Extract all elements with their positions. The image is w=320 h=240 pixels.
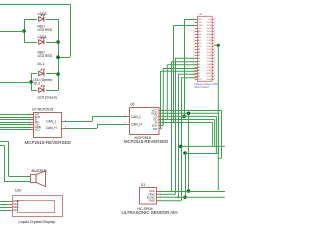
pin number U1 right 6 [214, 33, 215, 35]
wire U7 pin GND [0, 127, 31, 129]
wire vertical x188.5 [188, 113, 190, 191]
wire U7 pin SO [0, 122, 31, 124]
pin number U7 SCK [29, 116, 30, 118]
LCD U10 outer body [13, 196, 63, 217]
sensor S1 body [140, 188, 157, 205]
wire red LED left join [24, 19, 26, 42]
wire U1 mid pin f [178, 73, 197, 75]
label U1 pin D38 [207, 70, 212, 72]
wire buzzer + b [9, 176, 31, 178]
label U1 pin A0 [198, 75, 201, 78]
label U1 pin A7 [198, 54, 201, 57]
pin number U1 left 7 [193, 36, 194, 38]
pin U1 right 9 stub [212, 43, 214, 45]
label LED2 [38, 12, 47, 16]
label U6 value MCP2515 [135, 136, 151, 140]
wire U7 pin VCC [0, 129, 31, 131]
pin U1 left 1 stub [195, 19, 197, 21]
label U7 pin SCK [35, 115, 41, 119]
pin number U1 right 21 [214, 78, 215, 80]
svg-text:INT: INT [153, 127, 158, 131]
label BUZZER [32, 169, 47, 173]
pin number U1 left 3 [193, 24, 194, 26]
pin number U1 right 8 [214, 39, 215, 41]
pin U6 CS stub [159, 115, 162, 117]
pin number U1 left 6 [193, 33, 194, 35]
LED LED2 [39, 14, 45, 21]
pin U1 left 21 stub [195, 79, 197, 81]
label U1 pin D25 [207, 31, 212, 33]
svg-text:VIN: VIN [198, 28, 202, 30]
wire CAN_H b [97, 124, 126, 126]
pin number S1 VCC [160, 190, 161, 192]
pin U1 left 17 stub [195, 67, 197, 69]
label U7 CAN_L [46, 120, 57, 124]
pin U1 left 6 stub [195, 34, 197, 36]
wire drop b [171, 62, 173, 191]
label LCD pin GND [13, 199, 19, 203]
label LED1 value RED [38, 51, 46, 55]
label U1 link line1 [194, 82, 219, 86]
label U6 CAN_H [131, 122, 143, 126]
pin U1 right 16 stub [212, 64, 214, 66]
wire U1 mid pin d [163, 68, 197, 70]
wire U6 SCK out [162, 125, 164, 127]
svg-text:CAN_L: CAN_L [131, 115, 142, 119]
svg-text:GND: GND [198, 25, 203, 27]
pin S1 GND stub [156, 200, 159, 202]
wire right pin drop [217, 45, 219, 190]
wire drop g [181, 78, 183, 201]
pin number U6 SCK [162, 124, 163, 126]
wire CAN_L b [92, 116, 126, 118]
wire VCC jog [218, 157, 221, 159]
pin number U6 INT [162, 127, 163, 129]
pin U1 left 15 stub [195, 61, 197, 63]
label U7 pin VCC [35, 128, 41, 132]
label S1 pin ECHO [147, 195, 156, 199]
pin number U1 right 1 [214, 18, 215, 20]
node LED bus / rail [56, 55, 60, 59]
LED LED1 [39, 37, 45, 44]
pin number U7 SO [29, 121, 30, 123]
node U1 right pin [217, 44, 220, 47]
svg-text:8: 8 [124, 115, 125, 117]
pin U1 left 7 stub [195, 37, 197, 39]
wire LCD GND [0, 201, 9, 203]
pin number U1 left 13 [193, 54, 194, 56]
node LED bus / LED1 [56, 40, 60, 44]
pin U1 left 12 stub [195, 52, 197, 54]
wire U7 pin INT [0, 114, 31, 116]
node x188.5 sensor VCC [187, 189, 191, 193]
svg-text:8: 8 [124, 122, 125, 124]
pin number S1 GND [160, 199, 161, 201]
label U1 pin D36 [207, 64, 212, 66]
wire GND stair drop [218, 113, 220, 153]
wire CS stair drop [215, 116, 217, 153]
wire S1 GND [159, 200, 181, 202]
wire VCC drop [221, 110, 223, 158]
pin number U7 CAN_L [65, 120, 66, 122]
pin number U1 left 1 [193, 18, 194, 20]
pin number U1 left 18 [193, 69, 194, 71]
label S1 pin GND [149, 199, 155, 203]
pin U1 left 13 stub [195, 55, 197, 57]
label U7 CAN_H [46, 126, 58, 130]
pin number U1 left 12 [193, 51, 194, 53]
svg-text:U6: U6 [130, 103, 135, 107]
wire U7 pin SI [0, 119, 31, 121]
label U1 pin CLK [207, 76, 212, 78]
op-amp U7 MCP2515 body [34, 113, 62, 138]
wire U6 SI out [162, 122, 213, 124]
label U1 pin A11 [198, 42, 203, 45]
label DL1 value [33, 78, 52, 82]
wire buzzer - drop [4, 146, 6, 182]
pin U1 right 1 stub [212, 19, 214, 21]
pin U1 left 5 stub [195, 31, 197, 33]
label DL2 [34, 82, 41, 86]
pin U7 CAN_L stub [62, 121, 65, 123]
pin number S1 ECHO [160, 196, 161, 198]
pin U6 SI stub [159, 122, 162, 124]
wire U6 GND out [162, 112, 219, 114]
svg-text:DL1: DL1 [38, 62, 45, 66]
wire DL2 cathode [46, 90, 58, 92]
label U6 pin INT [153, 127, 158, 131]
pin U1 right 10 stub [212, 46, 214, 48]
label LED1 value LED RED [38, 54, 53, 58]
label ULTRASONIC SENSOR AIH [122, 210, 178, 215]
label U1 pin D22 [207, 22, 212, 24]
label U1 pin D52 [198, 22, 203, 24]
wire U1 right pin [214, 44, 219, 46]
svg-text:LED2: LED2 [38, 12, 47, 16]
pin number U1 right 15 [214, 60, 215, 62]
pin S1 TRIG stub [156, 193, 159, 195]
label LED2 value LED RED [38, 28, 53, 32]
wire U7 pin CS [0, 124, 31, 126]
svg-text:CAN_L: CAN_L [46, 120, 57, 124]
pin U7 CAN_H stub [62, 128, 65, 130]
wire U1 pin4 drop [173, 25, 175, 123]
node green LED feed [29, 80, 33, 84]
svg-text:MCP2515-REVERSED: MCP2515-REVERSED [25, 140, 72, 145]
wire U1 pin2 drop [184, 19, 186, 116]
pin LCD GND stub [9, 201, 12, 203]
pin U1 right 21 stub [212, 79, 214, 81]
pin U1 right 18 stub [212, 70, 214, 72]
wire LED2 cathode [46, 19, 58, 21]
label U1 [199, 12, 203, 16]
svg-text:Liquid Crystal Display: Liquid Crystal Display [19, 220, 56, 224]
pin number U6 SI [162, 121, 163, 123]
label U1 pin A5 [198, 60, 201, 63]
pin number U1 left 5 [193, 30, 194, 32]
label U1 pin D35 [207, 61, 212, 63]
pin U1 right 11 stub [212, 49, 214, 51]
pin U7 INT stub [31, 114, 34, 116]
label LED2 value RED [38, 25, 46, 29]
wire drop d [162, 68, 164, 126]
pin number U1 left 16 [193, 63, 194, 65]
label U1 pin D23 [207, 25, 212, 27]
svg-text:7: 7 [29, 128, 30, 130]
wire mid branch h [185, 153, 218, 155]
svg-text:SCL: SCL [13, 208, 19, 212]
wire SO stair drop [214, 120, 216, 147]
wire S1 VCC [159, 191, 225, 193]
pin U1 right 20 stub [212, 76, 214, 78]
pin number U6 VCC [162, 109, 163, 111]
svg-text:CAN_H: CAN_H [131, 122, 143, 126]
node LED bus / DL1 [56, 72, 60, 76]
node drop f echo [177, 196, 179, 198]
svg-text:LED RED: LED RED [38, 54, 53, 58]
wire U1 pin2 left [184, 19, 197, 21]
pin number U1 left 9 [193, 42, 194, 44]
pin number U1 right 12 [214, 51, 215, 53]
pin number U1 left 14 [193, 57, 194, 59]
pin number U1 right 16 [214, 63, 215, 65]
pin U1 right 17 stub [212, 67, 214, 69]
pin U6 SCK stub [159, 125, 162, 127]
svg-text:CLK: CLK [207, 76, 212, 78]
pin U6 CAN_H stub [126, 124, 129, 126]
pin U1 right 13 stub [212, 55, 214, 57]
label U6 pin SO [153, 118, 158, 122]
pin U1 right 15 stub [212, 61, 214, 63]
label U6 value reversed [124, 139, 168, 144]
pin number U1 right 4 [214, 27, 215, 29]
wire CAN_H a [65, 128, 98, 130]
pin U6 INT stub [159, 128, 162, 130]
wire red LED feed [0, 31, 24, 33]
label S1 [141, 183, 145, 187]
label U1 pin A2 [198, 69, 201, 72]
wire green LED left join [31, 74, 33, 91]
label U7 value [25, 140, 72, 145]
label U7 pin GND [35, 125, 41, 129]
label U1 pin A8 [198, 51, 201, 54]
svg-text:LED RED: LED RED [38, 28, 53, 32]
pin U6 SO stub [159, 119, 162, 121]
label U1 pin A9 [198, 48, 201, 51]
label U1 pin A14 [198, 30, 203, 33]
pin U1 right 7 stub [212, 37, 214, 39]
wire DL1 cathode [46, 73, 58, 75]
pin number U1 right 13 [214, 54, 215, 56]
label U6 pin VCC [151, 108, 157, 112]
pin U1 right 4 stub [212, 28, 214, 30]
pin number U1 right 19 [214, 72, 215, 74]
pin number U7 CS [29, 123, 30, 125]
pin number U1 right 3 [214, 24, 215, 26]
wire buzzer + drop [8, 142, 10, 177]
wire top rail drop [70, 4, 72, 57]
label U1 pin A12 [198, 39, 203, 42]
pin number U1 right 9 [214, 42, 215, 44]
label U7 pin SO [35, 120, 40, 124]
wire CAN_L a [65, 121, 93, 123]
svg-text:U7 MCP2515: U7 MCP2515 [32, 107, 53, 111]
label U1 pin D32 [207, 52, 212, 54]
pin number U6 CS [162, 115, 163, 117]
label U6 pin GND [151, 111, 157, 115]
label U1 link line2 [194, 86, 209, 89]
pin number U1 left 17 [193, 66, 194, 68]
wire U1 mid pin a [175, 57, 197, 59]
label DL2 value [38, 96, 57, 100]
pin number U1 right 14 [214, 57, 215, 59]
svg-text:U10: U10 [15, 189, 21, 193]
label HC-SR04 [137, 207, 152, 211]
svg-text:LED (Green): LED (Green) [38, 96, 57, 100]
label U1 pin 5V [208, 19, 211, 21]
pin U1 right 5 stub [212, 31, 214, 33]
label U1 pin D24 [207, 28, 212, 30]
wire U7 pin SCK [0, 117, 31, 119]
pin number U1 right 18 [214, 69, 215, 71]
pin LCD SDA stub [9, 207, 12, 209]
pin number U1 right 5 [214, 30, 215, 32]
label U1 pin D33 [207, 55, 212, 57]
label U1 pin D28 [207, 40, 212, 42]
pin number U1 right 7 [214, 36, 215, 38]
label U1 pin 3V3 [198, 19, 203, 21]
wire U1 mid pin b [172, 61, 197, 63]
pin number S1 TRIG [160, 193, 161, 195]
pin U1 left 19 stub [195, 73, 197, 75]
pin number U1 left 10 [193, 45, 194, 47]
wire top rail [0, 4, 70, 6]
label U1 pin A15 [198, 33, 203, 36]
pin U1 left 11 stub [195, 49, 197, 51]
svg-text:ULTRASONIC SENSOR AIH: ULTRASONIC SENSOR AIH [122, 210, 178, 215]
wire LED cathode bus [58, 19, 60, 91]
label S1 pin TRIG [148, 192, 155, 196]
wire LED1 cathode [46, 42, 58, 44]
svg-text:LED1: LED1 [38, 35, 47, 39]
label U1 pin GND [206, 73, 211, 75]
label U1 pin D40 [207, 79, 212, 81]
wire CAN_H jog [97, 124, 99, 128]
pin number U1 right 2 [214, 21, 215, 23]
label U1 pin SCL [207, 37, 212, 39]
pin U1 left 20 stub [195, 76, 197, 78]
svg-text:MCP2515-REVERSED: MCP2515-REVERSED [124, 139, 168, 144]
node drop g branch [179, 145, 183, 149]
pin number U1 left 15 [193, 60, 194, 62]
pin number U7 GND [29, 126, 30, 128]
label U1 pin D30 [207, 46, 212, 48]
wire U6 VCC out [162, 110, 222, 112]
label U10 [15, 189, 21, 193]
label U1 pin A6 [198, 57, 201, 60]
svg-text:GND: GND [206, 73, 211, 75]
pin U1 left 9 stub [195, 43, 197, 45]
label S1 pin VCC [149, 189, 155, 193]
pin number U7 VCC [29, 128, 30, 130]
label U1 pin SDA [206, 33, 211, 36]
LED DL2 [39, 85, 45, 92]
pin number U6 CAN_L [124, 115, 125, 117]
pin U7 GND stub [31, 127, 34, 129]
transistor U1 microcontroller body [198, 16, 213, 81]
wire green LED feed [0, 82, 31, 84]
wire U1 mid pin e [160, 70, 197, 72]
pin number U1 left 20 [193, 75, 194, 77]
pin number U6 CAN_H [124, 122, 125, 124]
svg-text:CAN_H: CAN_H [46, 126, 58, 130]
wire LCD VCC [0, 204, 9, 206]
label U1 pin A3 [198, 66, 201, 69]
label U1 pin A13 [198, 36, 203, 39]
pin LCD VCC stub [9, 204, 12, 206]
pin U1 left 8 stub [195, 40, 197, 42]
LED DL1 [39, 69, 45, 76]
wire DL2 anode [31, 90, 37, 92]
wire LED2 anode [24, 19, 37, 21]
svg-text:VCC: VCC [35, 128, 41, 132]
label U7 MCP2515 [32, 107, 53, 111]
wire U6 SO out [162, 119, 215, 121]
node GND / drop11 [187, 112, 191, 116]
pin U1 left 16 stub [195, 64, 197, 66]
pin number U6 SO [162, 118, 163, 120]
wire drop f [178, 74, 180, 197]
pin number U1 right 10 [214, 45, 215, 47]
pin U7 SI stub [31, 119, 34, 121]
pin U1 right 8 stub [212, 40, 214, 42]
label U1 pin A10 [198, 45, 203, 48]
label U1 pin VIN [198, 28, 202, 30]
op-amp U6 MCP2515 body [130, 108, 160, 135]
label U7 pin CS [35, 123, 39, 127]
wire U1 pin4 left [174, 25, 197, 27]
pin U7 VCC stub [31, 129, 34, 131]
pin U1 left 3 stub [195, 25, 197, 27]
pin U6 VCC stub [159, 110, 162, 112]
label U1 pin D29 [207, 43, 212, 45]
pin U7 CS stub [31, 124, 34, 126]
pin S1 ECHO stub [156, 196, 159, 198]
wire buzzer - a [0, 145, 4, 147]
label U6 [130, 103, 135, 107]
label U1 pin D13 [198, 79, 203, 81]
svg-text:1: 1 [162, 127, 163, 129]
pin U1 right 19 stub [212, 73, 214, 75]
pin number U1 right 17 [214, 66, 215, 68]
pin LCD SCL stub [9, 210, 12, 212]
pin number U7 CAN_H [65, 126, 66, 128]
pin U1 right 2 stub [212, 22, 214, 24]
label U6 CAN_L [131, 115, 142, 119]
pin U1 right 12 stub [212, 52, 214, 54]
wire drop a [175, 58, 177, 194]
wire drop c [166, 65, 168, 120]
label U7 pin SI [35, 118, 38, 122]
wire DL1 anode [31, 73, 37, 75]
node x185 sensor ECHO [183, 196, 187, 200]
label U1 pin D34 [207, 58, 212, 60]
pin U1 right 6 stub [212, 34, 214, 36]
pin number U7 INT [29, 113, 30, 115]
wire branch right [181, 145, 225, 147]
pin number U1 left 19 [193, 72, 194, 74]
wire LCD SCL [0, 210, 9, 212]
